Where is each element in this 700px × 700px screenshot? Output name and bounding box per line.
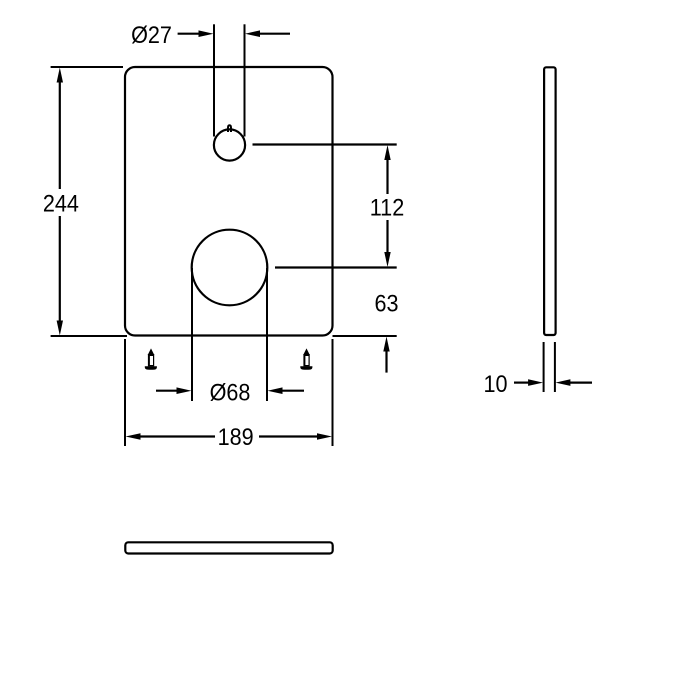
hole D27 (small circle) <box>214 129 245 160</box>
side view plate bar <box>544 67 556 335</box>
dimension 112 label <box>370 193 404 220</box>
svg-text:10: 10 <box>483 370 507 397</box>
front view plate outline <box>125 67 333 336</box>
dimension 112 line with arrows <box>384 145 390 267</box>
bottom view plate bar <box>125 542 332 553</box>
dimension 10 right arrow and line <box>555 379 592 386</box>
keyway notch on top of small hole <box>228 125 231 132</box>
dimension D27 extension line left <box>213 24 215 136</box>
dimension 10 left arrow and line <box>514 379 543 386</box>
svg-text:112: 112 <box>370 193 404 220</box>
svg-text:Ø27: Ø27 <box>131 21 172 48</box>
dimension D68 left arrow and line <box>156 387 192 394</box>
dimension 189 label <box>218 423 254 450</box>
dimension 189 extension line right <box>332 339 334 446</box>
dimension 189 line with arrows <box>126 433 333 440</box>
dimension 244 extension line bottom <box>51 335 127 337</box>
dimension D68 extension line left <box>191 268 193 401</box>
svg-text:244: 244 <box>43 189 79 216</box>
dimension D68 label <box>210 378 251 405</box>
dimension 63 label <box>374 290 398 317</box>
dimension 244 extension line top <box>51 66 123 68</box>
dimension D68 right arrow and line <box>268 387 305 394</box>
hole D68 (large circle) <box>192 230 268 306</box>
dimension D27 right arrow and line <box>245 30 290 37</box>
dimension 63 bottom arrow <box>383 337 389 373</box>
screw left <box>145 348 157 369</box>
leader line from small hole <box>253 143 397 145</box>
dimension 244 label <box>43 189 79 216</box>
dimension D27 extension line right <box>244 24 246 136</box>
dimension 10 extension line right <box>554 342 556 392</box>
dimension D27 left arrow and line <box>178 30 214 37</box>
svg-text:Ø68: Ø68 <box>210 378 251 405</box>
leader line from large hole <box>275 266 397 268</box>
dimension D27 label <box>131 21 172 48</box>
svg-text:189: 189 <box>218 423 254 450</box>
dimension 10 label <box>483 370 507 397</box>
dimension D68 extension line right <box>266 268 268 401</box>
screw right <box>300 348 312 369</box>
dimension 189 extension line left <box>124 339 126 446</box>
plate bottom leader right (63 reference) <box>333 335 397 337</box>
dimension 244 line with arrows <box>57 68 63 336</box>
dimension 10 extension line left <box>543 342 545 392</box>
svg-text:63: 63 <box>374 290 398 317</box>
